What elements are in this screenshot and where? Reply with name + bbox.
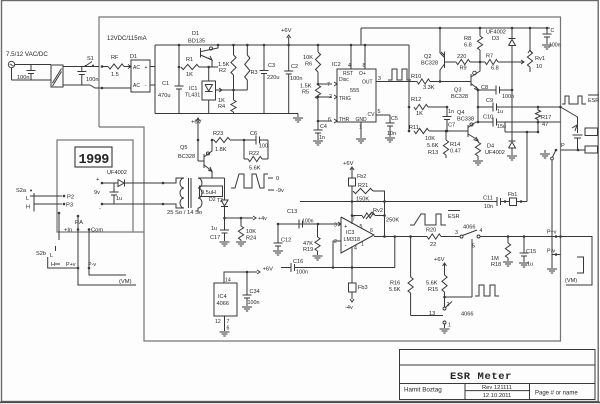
svg-text:9v: 9v [94,190,100,196]
svg-text:AC: AC [133,83,140,89]
svg-text:C1: C1 [162,81,169,87]
svg-text:BC328: BC328 [178,154,195,160]
svg-text:+6V: +6V [263,267,274,273]
svg-text:C17: C17 [210,235,220,241]
svg-text:5.6K: 5.6K [389,287,401,293]
svg-text:555: 555 [350,88,359,94]
svg-text:7.5/12 VAC/DC: 7.5/12 VAC/DC [6,51,48,58]
svg-text:IC3: IC3 [346,230,354,236]
svg-text:ESR: ESR [588,98,599,104]
svg-text:BC328: BC328 [421,61,438,67]
svg-text:7: 7 [327,82,330,88]
svg-text:R17: R17 [541,115,551,121]
svg-text:5: 5 [360,224,363,230]
svg-text:1.5: 1.5 [111,72,119,78]
svg-text:P3: P3 [66,203,73,209]
svg-text:1u: 1u [497,109,503,115]
svg-text:R24: R24 [246,236,256,242]
svg-text:13: 13 [429,311,435,317]
svg-text:BD135: BD135 [188,39,205,45]
svg-text:470u: 470u [158,93,170,99]
svg-text:S2a: S2a [16,188,27,194]
svg-text:ESR: ESR [448,214,460,220]
svg-text:H: H [51,262,55,268]
svg-text:10K: 10K [246,229,256,235]
svg-text:1u: 1u [527,262,533,268]
svg-text:P2: P2 [67,195,74,201]
svg-text:UF4002: UF4002 [486,30,506,36]
svg-text:D3: D3 [492,36,499,42]
svg-text:6.8: 6.8 [491,66,499,72]
svg-text:L: L [26,196,29,202]
svg-text:RA: RA [75,220,83,226]
svg-text:0: 0 [276,176,279,182]
svg-text:Rv2: Rv2 [373,208,383,214]
svg-text:10K: 10K [303,55,313,61]
svg-text:+In: +In [64,228,72,234]
svg-text:R8: R8 [464,36,471,42]
svg-text:P: P [561,143,565,149]
svg-text:C: C [551,28,555,34]
svg-text:10K: 10K [425,136,435,142]
svg-text:C4: C4 [320,124,327,130]
svg-text:6: 6 [227,326,230,332]
svg-text:H: H [26,205,30,211]
svg-text:+6V: +6V [434,257,445,263]
svg-text:25 So / 14 So: 25 So / 14 So [167,210,202,216]
svg-text:R6: R6 [305,62,312,68]
svg-text:Disc: Disc [339,77,349,83]
svg-text:1K: 1K [186,72,193,78]
svg-text:12VDC/115mA: 12VDC/115mA [107,36,147,42]
svg-text:5.6K: 5.6K [426,281,438,287]
svg-text:THR: THR [339,117,350,123]
svg-text:C15: C15 [526,249,536,255]
svg-text:C11: C11 [483,196,493,202]
svg-text:RF: RF [111,55,119,61]
svg-text:O+: O+ [359,71,366,77]
svg-text:OUT: OUT [362,80,373,86]
svg-text:1K: 1K [416,111,423,117]
svg-text:Rv1: Rv1 [535,56,545,62]
svg-text:4: 4 [480,228,483,234]
svg-text:100n: 100n [17,75,29,81]
svg-text:R12: R12 [411,97,421,103]
svg-text:6.8: 6.8 [464,43,472,49]
svg-text:R3: R3 [251,70,258,76]
svg-text:100n: 100n [502,94,514,100]
svg-text:ESR Meter: ESR Meter [450,371,512,383]
svg-text:10n: 10n [387,131,396,137]
svg-text:C2: C2 [291,64,298,70]
svg-text:100n: 100n [296,270,308,276]
svg-text:12: 12 [215,319,221,325]
svg-text:5.6K: 5.6K [249,166,261,172]
svg-text:C9: C9 [486,98,493,104]
svg-text:Q2: Q2 [424,54,431,60]
svg-text:UF4002: UF4002 [107,170,127,176]
svg-text:4066: 4066 [463,225,475,231]
svg-text:2: 2 [334,239,337,245]
svg-text:Q3: Q3 [454,88,461,94]
svg-text:C12: C12 [281,238,291,244]
svg-text:1u: 1u [116,196,122,202]
svg-text:Page # or name: Page # or name [535,391,578,397]
svg-text:R23: R23 [213,131,223,137]
svg-text:R5: R5 [302,90,309,96]
svg-text:Q5: Q5 [180,145,187,151]
svg-text:R11: R11 [409,125,419,131]
svg-text:TL431: TL431 [185,93,200,99]
svg-text:UF4002: UF4002 [485,150,505,156]
svg-text:Rev 121111: Rev 121111 [482,385,512,391]
svg-text:D1: D1 [192,31,199,37]
svg-text:-: - [99,206,101,212]
svg-text:S2b: S2b [36,251,46,257]
svg-text:C34: C34 [250,289,260,295]
svg-text:7: 7 [352,217,355,223]
svg-text:5: 5 [378,109,381,115]
svg-text:AC: AC [133,65,140,71]
svg-text:CV: CV [368,112,376,118]
svg-text:R13: R13 [428,150,438,156]
svg-text:C7: C7 [448,123,455,129]
svg-text:D2: D2 [209,197,216,203]
svg-text:(VM): (VM) [565,278,577,284]
svg-text:9.5uH: 9.5uH [201,190,216,196]
svg-text:10: 10 [536,64,542,70]
svg-text:R10: R10 [411,74,421,80]
svg-text:14: 14 [225,278,231,284]
svg-text:250K: 250K [386,218,399,224]
svg-text:R21: R21 [358,183,368,189]
svg-text:-4v: -4v [345,305,353,311]
svg-text:-: - [345,242,347,249]
svg-text:2: 2 [447,302,450,308]
svg-text:S1: S1 [87,56,94,62]
svg-text:R1: R1 [186,57,193,63]
svg-text:IC2: IC2 [332,62,341,68]
svg-text:R9: R9 [460,66,467,72]
svg-text:C5: C5 [391,116,398,122]
svg-text:D4: D4 [487,144,494,150]
svg-text:C8: C8 [481,85,488,91]
svg-text:LM318: LM318 [344,237,360,243]
svg-text:0.47: 0.47 [450,149,461,155]
svg-text:TRIG: TRIG [339,96,351,102]
svg-text:100n: 100n [248,300,260,306]
svg-text:P+v: P+v [66,262,76,268]
svg-text:Q4: Q4 [457,110,464,116]
svg-text:Fb3: Fb3 [358,285,368,291]
svg-text:Com: Com [91,228,103,234]
svg-text:R7: R7 [486,54,493,60]
svg-text:100n: 100n [290,76,302,82]
svg-text:22: 22 [430,242,436,248]
svg-text:1999: 1999 [79,153,110,168]
svg-text:IC1: IC1 [189,86,197,92]
svg-text:1n: 1n [448,109,454,115]
svg-text:(VM): (VM) [119,279,132,285]
svg-text:Fb2: Fb2 [357,174,366,180]
svg-text:+: + [96,177,99,183]
svg-text:R16: R16 [390,281,400,287]
svg-text:4: 4 [354,246,357,252]
svg-text:R15: R15 [428,287,438,293]
svg-text:R2: R2 [219,68,226,74]
svg-text:Fb1: Fb1 [508,192,517,198]
svg-text:100n: 100n [302,219,314,225]
svg-text:C10: C10 [483,115,493,121]
svg-text:IC4: IC4 [218,294,227,300]
svg-text:6: 6 [328,117,331,123]
svg-text:L: L [50,253,53,259]
svg-text:C3: C3 [268,63,275,69]
svg-text:BC338: BC338 [457,117,474,123]
svg-text:R22: R22 [249,151,259,157]
svg-text:220: 220 [457,54,466,60]
svg-text:P-v: P-v [547,249,555,255]
svg-text:+: + [145,65,148,71]
svg-text:D1: D1 [130,54,137,60]
svg-text:R18: R18 [491,262,501,268]
svg-text:R19: R19 [303,247,313,253]
svg-text:+4v: +4v [258,216,267,222]
svg-text:3.3K: 3.3K [423,85,435,91]
svg-text:10n: 10n [484,204,493,210]
svg-text:1.8K: 1.8K [215,147,227,153]
svg-text:Hamit Boztag: Hamit Boztag [404,387,442,394]
svg-text:R14: R14 [450,142,460,148]
svg-text:3: 3 [455,230,458,236]
svg-text:1u: 1u [211,226,217,232]
svg-text:4066: 4066 [217,301,229,307]
svg-text:100n: 100n [549,43,561,49]
svg-text:5.6K: 5.6K [427,143,439,149]
svg-text:-9v: -9v [276,188,284,194]
svg-text:R20: R20 [426,228,436,234]
svg-text:+6V: +6V [343,161,354,167]
svg-text:47: 47 [542,122,548,128]
svg-text:C13: C13 [287,209,297,215]
svg-text:12.10.2011: 12.10.2011 [483,393,512,399]
svg-text:6: 6 [370,228,373,234]
svg-text:1: 1 [361,242,364,248]
svg-text:+6V: +6V [281,28,292,34]
svg-text:1: 1 [448,323,451,329]
svg-text:100n: 100n [86,77,98,83]
svg-text:3: 3 [334,223,337,229]
svg-text:7: 7 [227,319,230,325]
svg-text:1n: 1n [319,135,325,141]
svg-text:220u: 220u [267,75,279,81]
svg-text:4066: 4066 [461,312,473,318]
svg-text:BC328: BC328 [451,94,468,100]
svg-text:R4: R4 [218,104,225,110]
svg-text:100: 100 [259,144,268,150]
